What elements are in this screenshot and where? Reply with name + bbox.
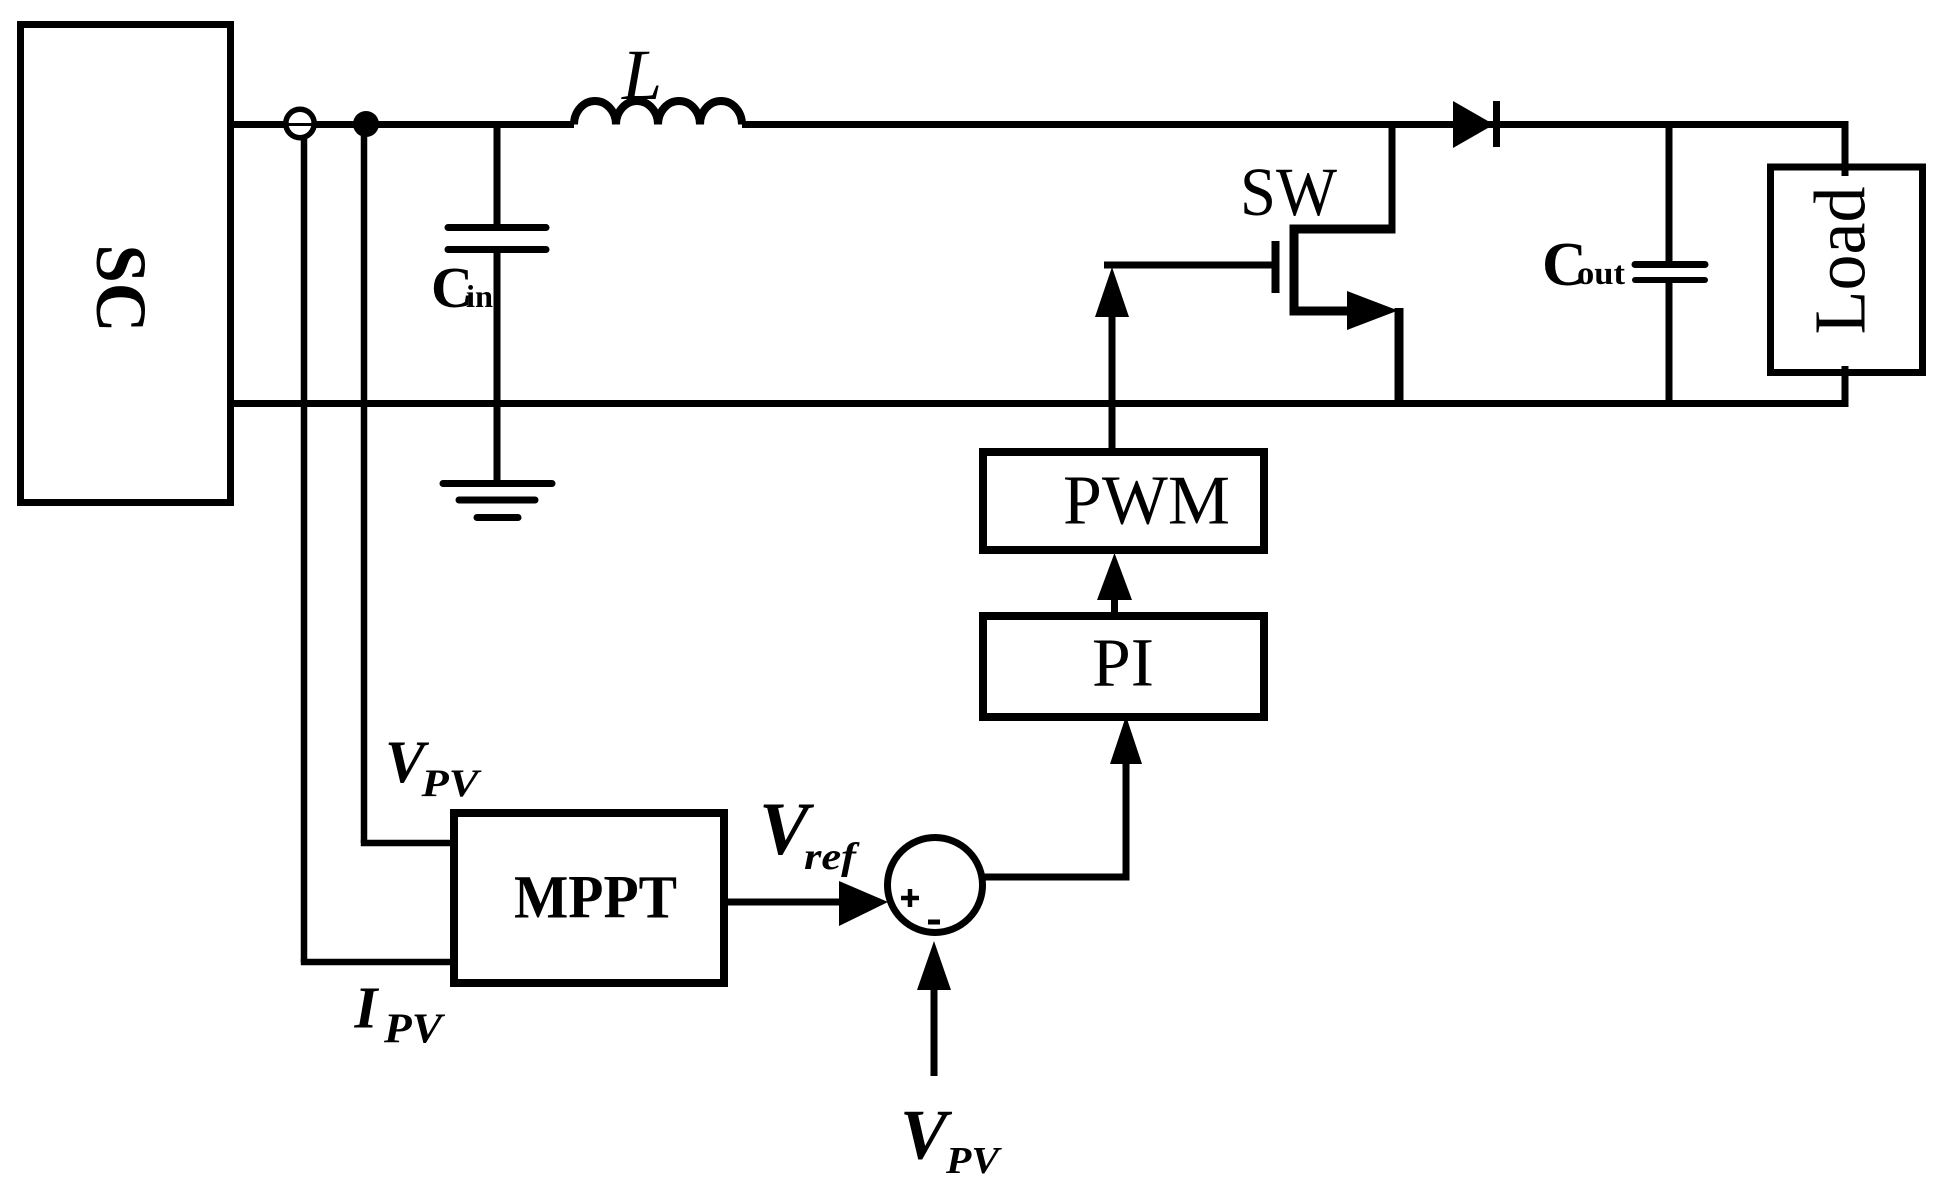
PI block: [983, 616, 1264, 717]
arrow VPV into summing junction shaft: [931, 988, 938, 1076]
wire top rail left segment: [234, 121, 574, 128]
gate drive shaft from PWM: [1109, 315, 1116, 452]
MPPT block: [454, 813, 724, 983]
diode D cathode bar: [1493, 101, 1500, 147]
capacitor Cout bottom lead: [1666, 283, 1673, 403]
wire sensor drop (IPV): [301, 137, 308, 962]
Load block: [1771, 167, 1923, 373]
minus sign: [928, 920, 940, 925]
svg-text:I: I: [354, 975, 380, 1041]
wire VPV horizontal into MPPT: [361, 840, 452, 847]
transistor SW source arrowhead: [1347, 291, 1398, 330]
arrow PI to PWM head: [1097, 553, 1132, 600]
capacitor Cout bottom plate: [1635, 277, 1705, 283]
svg-text:MPPT: MPPT: [514, 865, 677, 932]
wire top-right corner drop to Load: [1842, 121, 1849, 176]
SC source block: [21, 25, 231, 503]
node junction dot: [353, 111, 379, 137]
transistor SW gate wire: [1104, 262, 1272, 269]
plus sign: [901, 896, 919, 901]
svg-text:PV: PV: [383, 1007, 445, 1053]
transistor SW drain horizontal: [1290, 225, 1396, 234]
capacitor Cin bottom lead: [494, 253, 501, 483]
svg-text:SC: SC: [81, 245, 161, 333]
capacitor Cin bottom plate: [448, 246, 546, 253]
wire top rail right segment: [742, 121, 1845, 128]
arrow sum to PI head: [1110, 716, 1142, 764]
gate drive arrowhead: [1095, 267, 1129, 317]
svg-text:out: out: [1577, 256, 1625, 292]
current sensor circle: [286, 109, 314, 137]
PWM block: [983, 452, 1264, 550]
wire sum output to PI: [981, 762, 1126, 877]
transistor SW gate bar: [1272, 241, 1280, 293]
svg-text:ref: ref: [804, 836, 860, 878]
wire dot drop (VPV): [361, 124, 368, 843]
wire Vref from MPPT: [728, 899, 842, 906]
transistor SW drain tap: [1389, 124, 1396, 233]
svg-text:SW: SW: [1240, 154, 1337, 230]
capacitor Cin top plate: [448, 224, 546, 231]
transistor SW source drop: [1395, 308, 1404, 407]
transistor SW source horizontal: [1294, 307, 1352, 316]
wire bottom rail: [234, 400, 1845, 407]
capacitor Cout top lead: [1666, 124, 1673, 262]
svg-text:Load: Load: [1800, 187, 1881, 335]
diode D anode triangle: [1453, 101, 1494, 148]
Vref arrowhead: [839, 881, 888, 926]
current sensor through-line: [287, 123, 313, 126]
svg-text:PWM: PWM: [1063, 463, 1230, 540]
svg-text:PV: PV: [945, 1140, 1002, 1182]
arrow PI to PWM shaft: [1111, 598, 1118, 616]
wire IPV horizontal into MPPT: [301, 959, 452, 966]
summing junction circle: [888, 838, 983, 933]
inductor L winding: [574, 101, 742, 125]
transistor SW channel bar: [1290, 225, 1299, 316]
capacitor Cin top lead: [494, 124, 501, 224]
svg-text:PI: PI: [1092, 625, 1154, 701]
svg-text:in: in: [466, 278, 493, 314]
svg-text:PV: PV: [420, 762, 482, 805]
svg-text:L: L: [621, 35, 662, 115]
capacitor Cout top plate: [1635, 261, 1705, 268]
arrow VPV into summing junction head: [917, 941, 951, 990]
wire bottom-right corner rise to Load: [1842, 366, 1849, 407]
ground symbol: [443, 480, 552, 487]
